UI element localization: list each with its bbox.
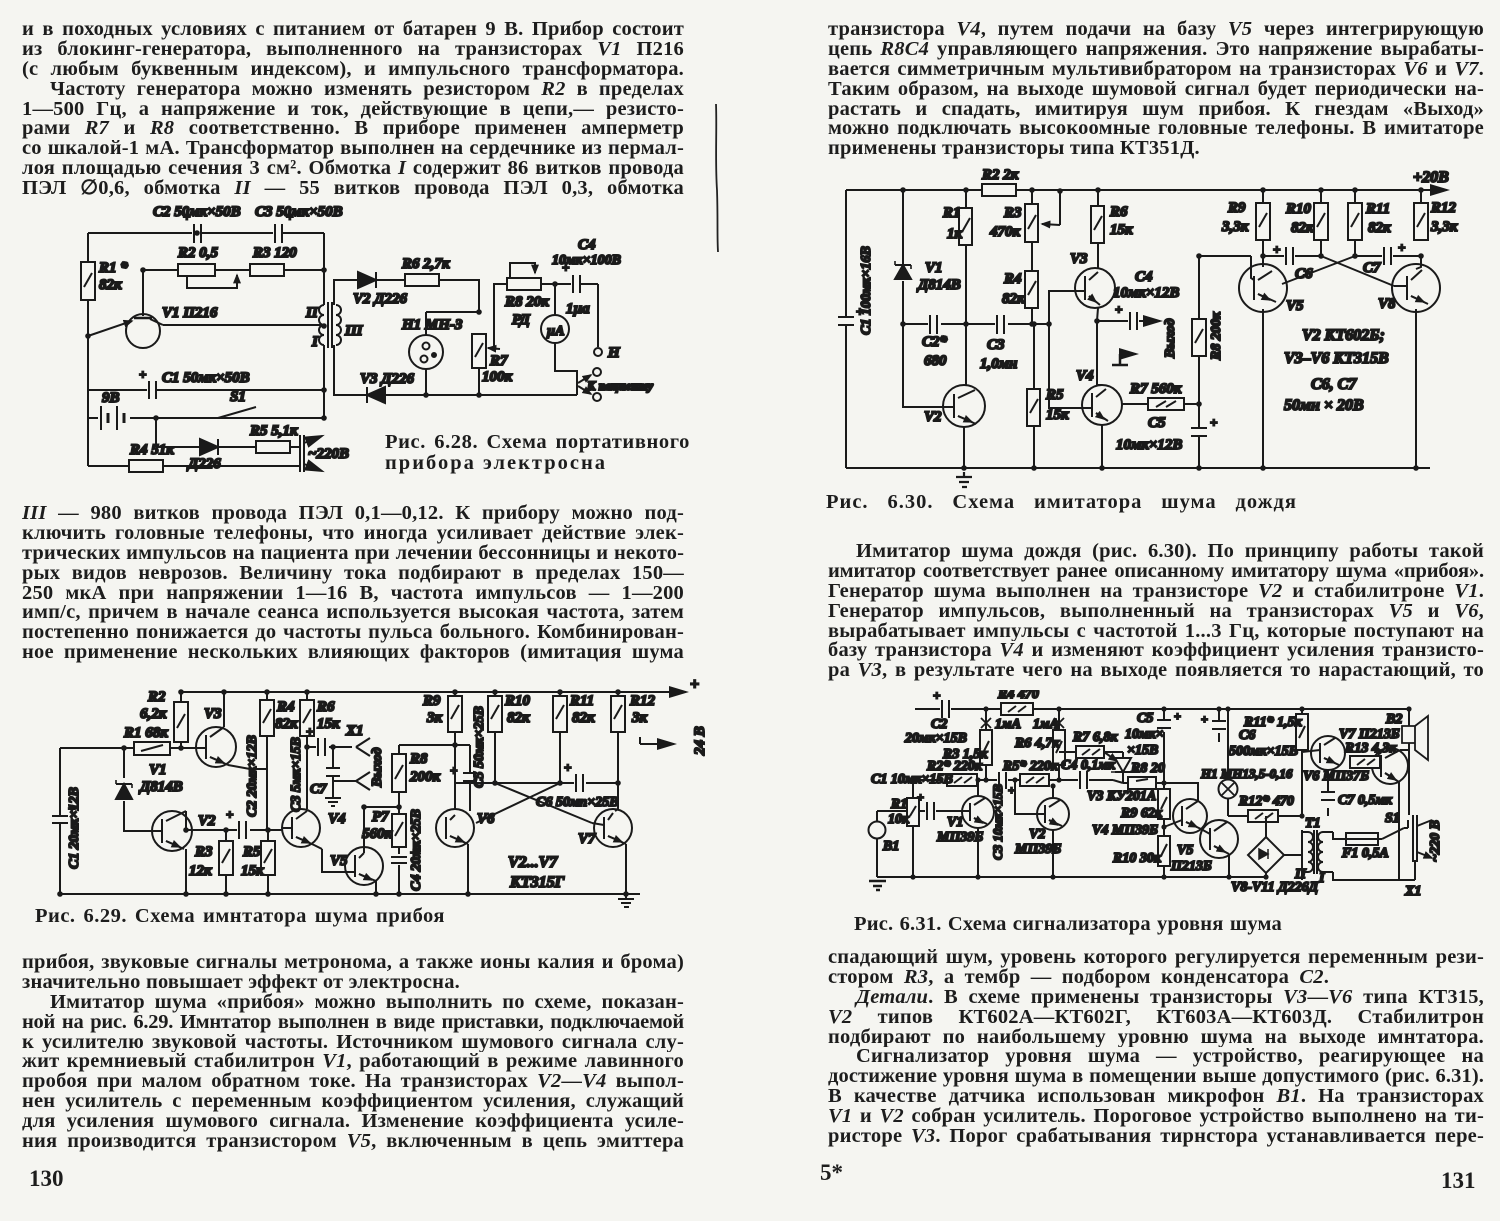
svg-text:III: III bbox=[344, 323, 364, 339]
svg-text:К пациенту: К пациенту bbox=[586, 379, 654, 393]
svg-text:V3–V6 КТ315В: V3–V6 КТ315В bbox=[1284, 350, 1389, 367]
svg-text:С5: С5 bbox=[1148, 415, 1166, 431]
svg-text:82к: 82к bbox=[1291, 220, 1314, 236]
svg-text:+: + bbox=[933, 690, 940, 703]
svg-text:R5 5,1к: R5 5,1к bbox=[249, 423, 298, 439]
svg-text:9В: 9В bbox=[102, 390, 120, 406]
svg-text:I: I bbox=[1318, 871, 1325, 886]
svg-text:V7: V7 bbox=[578, 831, 596, 847]
svg-text:С2 20мк×12В: С2 20мк×12В bbox=[245, 735, 260, 817]
svg-text:+: + bbox=[1398, 240, 1405, 255]
svg-text:V2: V2 bbox=[198, 813, 216, 829]
svg-text:+: + bbox=[226, 807, 233, 822]
svg-text:С3 10мк×15В: С3 10мк×15В bbox=[990, 784, 1005, 860]
svg-text:С6, С7: С6, С7 bbox=[1311, 376, 1357, 393]
svg-text:R11* 1,5к: R11* 1,5к bbox=[1243, 715, 1303, 730]
svg-text:+: + bbox=[1273, 242, 1280, 257]
svg-text:С5: С5 bbox=[1137, 711, 1153, 726]
svg-text:+20В: +20В bbox=[1413, 169, 1449, 186]
svg-text:15к: 15к bbox=[1046, 407, 1069, 423]
svg-text:Д814В: Д814В bbox=[138, 779, 183, 795]
svg-text:R11: R11 bbox=[1365, 201, 1390, 217]
svg-text:МП39Б: МП39Б bbox=[936, 830, 983, 845]
svg-text:X1: X1 bbox=[345, 723, 364, 739]
svg-text:R6 4,7к: R6 4,7к bbox=[1014, 736, 1060, 751]
svg-text:V2 КТ602Б;: V2 КТ602Б; bbox=[1302, 327, 1385, 344]
svg-text:X1: X1 bbox=[1404, 884, 1421, 899]
svg-text:С4: С4 bbox=[1135, 269, 1153, 285]
svg-text:~220В: ~220В bbox=[308, 446, 349, 462]
svg-text:С5 50мк×25В: С5 50мк×25В bbox=[472, 706, 487, 788]
svg-text:R7 6,8к: R7 6,8к bbox=[1072, 730, 1118, 745]
svg-text:V5: V5 bbox=[1286, 298, 1304, 314]
svg-text:+: + bbox=[306, 724, 313, 739]
svg-text:1мА: 1мА bbox=[995, 717, 1021, 732]
svg-text:R12: R12 bbox=[1430, 200, 1457, 216]
svg-text:С1 20мк×12В: С1 20мк×12В bbox=[67, 787, 82, 869]
svg-text:С6: С6 bbox=[1295, 266, 1313, 282]
svg-text:V2: V2 bbox=[924, 409, 942, 425]
svg-text:82к: 82к bbox=[1368, 220, 1391, 236]
svg-text:+: + bbox=[1210, 415, 1217, 430]
svg-text:V1: V1 bbox=[925, 260, 943, 276]
svg-text:82к: 82к bbox=[99, 277, 122, 293]
svg-text:С2: С2 bbox=[931, 717, 947, 732]
svg-text:R13 4,3к: R13 4,3к bbox=[1344, 741, 1397, 756]
svg-text:V4: V4 bbox=[1076, 368, 1094, 384]
svg-text:Н: Н bbox=[607, 345, 621, 361]
svg-text:С7: С7 bbox=[1363, 260, 1381, 276]
svg-text:КТ315Г: КТ315Г bbox=[509, 874, 565, 891]
svg-text:R2: R2 bbox=[147, 689, 166, 705]
svg-text:R8 200к: R8 200к bbox=[1209, 311, 1224, 361]
svg-text:R4 51к: R4 51к bbox=[129, 442, 174, 458]
svg-text:500мк×15В: 500мк×15В bbox=[1229, 744, 1298, 759]
svg-text:10мк×12В: 10мк×12В bbox=[1113, 285, 1179, 301]
svg-text:V2...V7: V2...V7 bbox=[508, 854, 558, 871]
svg-text:+: + bbox=[690, 676, 699, 693]
svg-text:V7 П213Б: V7 П213Б bbox=[1339, 727, 1400, 742]
svg-text:200к: 200к bbox=[409, 769, 441, 785]
svg-text:10мк×: 10мк× bbox=[1125, 727, 1164, 742]
svg-text:V1 П216: V1 П216 bbox=[162, 305, 218, 321]
svg-text:15к: 15к bbox=[317, 716, 340, 732]
svg-text:V2 Д226: V2 Д226 bbox=[353, 291, 408, 307]
svg-text:R3 120: R3 120 bbox=[252, 245, 297, 261]
svg-text:82к: 82к bbox=[1002, 291, 1025, 307]
svg-text:1,0мн: 1,0мн bbox=[980, 356, 1017, 372]
svg-text:100к: 100к bbox=[482, 369, 513, 385]
svg-text:+: + bbox=[1174, 709, 1181, 723]
svg-text:10мк×12В: 10мк×12В bbox=[1116, 437, 1182, 453]
svg-text:С4 0,1мк: С4 0,1мк bbox=[1061, 758, 1116, 773]
svg-text:V4: V4 bbox=[328, 811, 346, 827]
svg-text:12к: 12к bbox=[189, 863, 212, 879]
svg-text:R9 62к: R9 62к bbox=[1120, 806, 1163, 821]
svg-text:R1 *: R1 * bbox=[98, 260, 128, 276]
svg-text:I: I bbox=[311, 334, 319, 350]
svg-text:R9: R9 bbox=[1227, 200, 1246, 216]
svg-text:3,3к: 3,3к bbox=[1430, 219, 1458, 235]
svg-text:V5: V5 bbox=[1177, 843, 1193, 858]
svg-text:II: II bbox=[305, 305, 319, 321]
svg-text:R6: R6 bbox=[1109, 204, 1128, 220]
svg-text:10мк×100В: 10мк×100В bbox=[552, 253, 621, 268]
svg-text:С1 100мк×16В: С1 100мк×16В bbox=[859, 246, 874, 335]
svg-text:R7: R7 bbox=[489, 353, 508, 369]
svg-text:50мн × 20В: 50мн × 20В bbox=[1284, 397, 1364, 414]
svg-text:+: + bbox=[450, 763, 457, 778]
svg-text:560к: 560к bbox=[362, 826, 393, 842]
svg-text:R6: R6 bbox=[316, 699, 335, 715]
svg-text:R9: R9 bbox=[422, 693, 441, 709]
svg-text:V4 МП39Б: V4 МП39Б bbox=[1092, 823, 1158, 838]
svg-text:Выход: Выход bbox=[1163, 318, 1178, 359]
svg-text:+: + bbox=[564, 760, 571, 775]
svg-text:V8-V11 Д226Д: V8-V11 Д226Д bbox=[1231, 880, 1319, 895]
svg-text:С3: С3 bbox=[987, 337, 1005, 353]
svg-text:R5: R5 bbox=[1045, 387, 1064, 403]
svg-text:П: П bbox=[1294, 867, 1307, 882]
svg-text:82к: 82к bbox=[275, 716, 298, 732]
svg-text:6,2к: 6,2к bbox=[140, 706, 167, 722]
svg-text:РД: РД bbox=[512, 312, 531, 328]
svg-text:V3: V3 bbox=[1070, 251, 1088, 267]
svg-text:C2 50мк×50В: C2 50мк×50В bbox=[153, 205, 241, 220]
svg-text:R2 2к: R2 2к bbox=[981, 168, 1019, 183]
svg-text:Т1: Т1 bbox=[1305, 816, 1321, 831]
svg-text:С4 20мк×25В: С4 20мк×25В bbox=[409, 809, 424, 891]
svg-text:µА: µА bbox=[546, 324, 564, 339]
svg-text:R12: R12 bbox=[629, 693, 656, 709]
svg-text:+: + bbox=[139, 367, 146, 382]
svg-text:V6 МП37Б: V6 МП37Б bbox=[1303, 769, 1369, 784]
svg-text:R4 470: R4 470 bbox=[997, 690, 1039, 702]
svg-text:24 В: 24 В bbox=[692, 726, 708, 756]
svg-text:R10 30к: R10 30к bbox=[1112, 851, 1162, 866]
svg-text:V1: V1 bbox=[947, 815, 963, 830]
svg-text:~220 В: ~220 В bbox=[1428, 820, 1443, 862]
svg-text:R11: R11 bbox=[569, 693, 594, 709]
svg-text:S1: S1 bbox=[230, 389, 246, 405]
svg-text:R8 20: R8 20 bbox=[1130, 761, 1165, 776]
svg-text:3,3к: 3,3к bbox=[1221, 219, 1249, 235]
svg-text:R10: R10 bbox=[1285, 201, 1312, 217]
svg-text:10к: 10к bbox=[888, 812, 910, 827]
svg-text:15к: 15к bbox=[241, 863, 264, 879]
svg-text:R3: R3 bbox=[1003, 205, 1022, 221]
svg-text:Н1 МН-З: Н1 МН-З bbox=[401, 317, 463, 333]
svg-text:С6 50мп×25В: С6 50мп×25В bbox=[536, 795, 619, 810]
svg-text:П213Б: П213Б bbox=[1170, 859, 1212, 874]
svg-text:R12* 470: R12* 470 bbox=[1238, 794, 1294, 809]
svg-text:V2: V2 bbox=[1029, 827, 1045, 842]
svg-text:1к: 1к bbox=[947, 226, 963, 242]
svg-text:1µа: 1µа bbox=[566, 301, 590, 317]
svg-text:С2*: С2* bbox=[922, 334, 948, 350]
svg-text:V3 КУ201А: V3 КУ201А bbox=[1087, 789, 1156, 804]
svg-text:Д814В: Д814В bbox=[916, 277, 961, 293]
svg-text:1мА: 1мА bbox=[1033, 717, 1059, 732]
svg-text:C3 50мк×50В: C3 50мк×50В bbox=[255, 205, 343, 220]
svg-text:470к: 470к bbox=[989, 224, 1021, 240]
svg-text:R1: R1 bbox=[942, 205, 961, 221]
svg-text:S1: S1 bbox=[1385, 811, 1400, 826]
svg-text:Н1 МН13,5-0,16: Н1 МН13,5-0,16 bbox=[1200, 766, 1293, 781]
svg-text:F1 0,5А: F1 0,5А bbox=[1341, 846, 1389, 861]
svg-text:R8 20к: R8 20к bbox=[504, 294, 549, 310]
svg-text:С3 5мк×15В: С3 5мк×15В bbox=[289, 737, 304, 812]
svg-text:C1 50мк×50В: C1 50мк×50В bbox=[162, 370, 250, 386]
svg-text:V8: V8 bbox=[1378, 296, 1396, 312]
svg-text:V3: V3 bbox=[204, 706, 222, 722]
svg-text:R1 68к: R1 68к bbox=[123, 725, 168, 741]
svg-text:С7 0,5мк: С7 0,5мк bbox=[1338, 793, 1393, 808]
svg-text:+: + bbox=[1115, 302, 1122, 317]
svg-text:R5* 220к: R5* 220к bbox=[1002, 759, 1059, 774]
svg-text:82к: 82к bbox=[507, 710, 530, 726]
svg-text:+: + bbox=[1201, 712, 1208, 726]
svg-text:R3: R3 bbox=[194, 844, 213, 860]
svg-text:R7 560к: R7 560к bbox=[1129, 381, 1182, 397]
svg-text:R4: R4 bbox=[1003, 271, 1022, 287]
svg-text:С7: С7 bbox=[310, 782, 327, 797]
svg-text:Д226: Д226 bbox=[186, 456, 221, 472]
svg-text:R4: R4 bbox=[276, 699, 295, 715]
svg-text:3к: 3к bbox=[426, 710, 443, 726]
svg-text:В1: В1 bbox=[882, 839, 899, 854]
svg-text:V5: V5 bbox=[330, 853, 348, 869]
svg-text:Выход: Выход bbox=[370, 747, 385, 788]
svg-text:В2: В2 bbox=[1385, 712, 1402, 727]
svg-text:R2 0,5: R2 0,5 bbox=[177, 245, 219, 261]
svg-text:C4: C4 bbox=[578, 237, 596, 253]
svg-text:R10: R10 bbox=[504, 693, 531, 709]
svg-text:Р7: Р7 bbox=[372, 809, 389, 825]
svg-text:R5: R5 bbox=[242, 844, 261, 860]
svg-text:×15В: ×15В bbox=[1127, 743, 1158, 758]
svg-text:82к: 82к bbox=[572, 710, 595, 726]
svg-text:V1: V1 bbox=[149, 762, 167, 778]
svg-text:+: + bbox=[1008, 783, 1015, 797]
svg-text:R6 2,7к: R6 2,7к bbox=[401, 256, 450, 272]
svg-text:3к: 3к bbox=[631, 710, 648, 726]
svg-text:15к: 15к bbox=[1110, 222, 1133, 238]
svg-text:680: 680 bbox=[924, 353, 947, 369]
svg-text:20мк×15В: 20мк×15В bbox=[904, 731, 967, 746]
svg-text:МП39Б: МП39Б bbox=[1014, 842, 1061, 857]
svg-text:R1: R1 bbox=[890, 797, 907, 812]
svg-text:V3 Д226: V3 Д226 bbox=[360, 371, 415, 387]
svg-text:R8: R8 bbox=[409, 751, 428, 767]
svg-text:С6: С6 bbox=[1239, 728, 1255, 743]
